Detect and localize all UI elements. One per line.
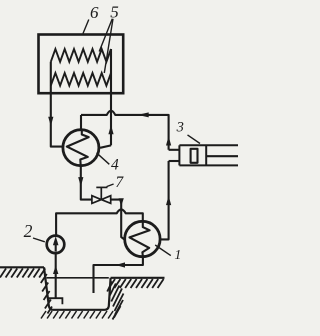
svg-text:5: 5 <box>110 3 119 22</box>
svg-text:7: 7 <box>115 174 124 191</box>
svg-text:4: 4 <box>111 156 119 173</box>
svg-text:1: 1 <box>174 248 181 263</box>
svg-text:6: 6 <box>90 3 99 22</box>
svg-text:2: 2 <box>24 221 33 241</box>
svg-text:3: 3 <box>176 119 184 135</box>
